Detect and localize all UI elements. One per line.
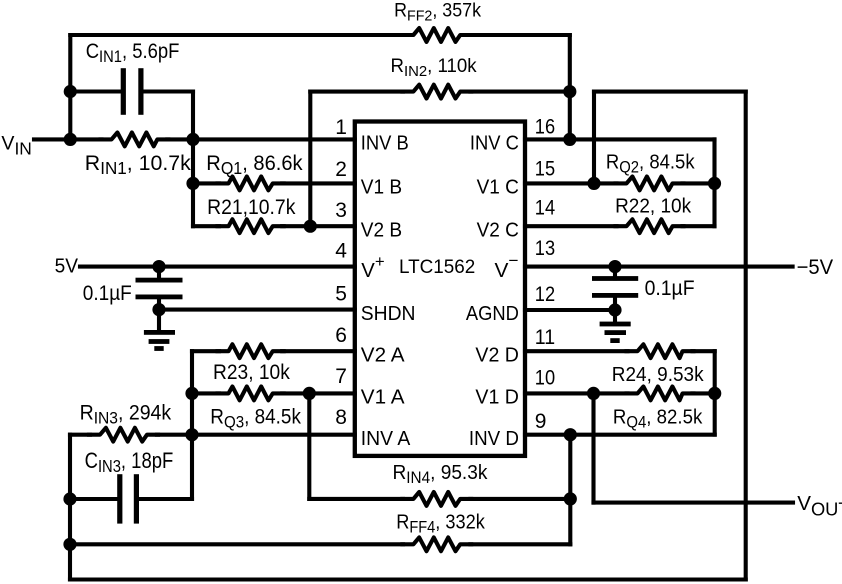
resistor RQ1 <box>218 177 284 191</box>
RIN1 value label <box>85 151 191 178</box>
wire INVA node vertical <box>190 351 194 499</box>
wire RIN4 right <box>470 497 570 501</box>
wire V1D pin 10 <box>525 391 715 395</box>
svg-text:3: 3 <box>335 199 347 222</box>
U1 pin 13 name V- <box>495 251 519 282</box>
svg-text:12: 12 <box>535 283 555 306</box>
svg-text:5V: 5V <box>55 256 79 278</box>
U1 pin 15 name V1 C <box>477 177 519 199</box>
wire INV D pin 9 <box>525 433 715 437</box>
svg-text:4: 4 <box>335 240 347 263</box>
junction RQ4 right <box>708 387 721 400</box>
U1 pin number 12 <box>535 283 555 306</box>
resistor R21 <box>218 219 284 233</box>
svg-text:1: 1 <box>335 116 347 139</box>
wire V2D pin 11 <box>525 349 715 353</box>
wire RIN2 vertical <box>308 92 312 227</box>
svg-text:10: 10 <box>535 366 555 389</box>
wire RQ1 to V1 B pin 2 <box>193 181 355 185</box>
svg-text:LTC1562: LTC1562 <box>399 257 475 278</box>
U1 pin 3 name V2 B <box>361 219 402 241</box>
resistor RIN4 <box>402 492 471 506</box>
VIN label <box>1 133 31 159</box>
svg-text:INV C: INV C <box>470 133 519 155</box>
wire VIN vertical to RFF2/CIN1 <box>68 35 72 139</box>
RQ1 value label <box>206 151 303 178</box>
svg-text:R24, 9.53k: R24, 9.53k <box>612 363 704 386</box>
junction INVB node RQ1 <box>186 177 199 190</box>
U1 pin 5 name SHDN <box>361 303 416 325</box>
U1 pin number 14 <box>535 197 556 220</box>
U1 pin number 7 <box>335 365 347 388</box>
resistor RIN3 <box>89 428 158 442</box>
svg-text:V1 A: V1 A <box>361 387 405 409</box>
wire RFF2 down to INV C <box>568 35 572 139</box>
wire INVC right vertical <box>712 139 716 226</box>
U1 pin 4 name V+ <box>361 252 384 282</box>
junction INVA-RIN3 <box>185 428 198 441</box>
svg-text:0.1µF: 0.1µF <box>83 281 132 305</box>
capacitor bypass right plates <box>592 276 638 298</box>
junction RQ2 right <box>708 177 721 190</box>
svg-text:16: 16 <box>535 116 555 139</box>
wire AGND pin 12 <box>525 308 615 312</box>
wire V- pin 13 to -5V <box>525 265 793 269</box>
svg-text:V1 D: V1 D <box>475 387 519 409</box>
svg-text:V1 B: V1 B <box>361 177 402 199</box>
R22 value label <box>615 195 692 218</box>
-5V label <box>797 256 834 279</box>
RIN2 value label <box>391 56 478 80</box>
wire RIN2 right <box>470 90 569 94</box>
junction VIN-CIN1 <box>64 85 77 98</box>
wire RFF4 left <box>70 542 403 546</box>
svg-text:−5V: −5V <box>797 256 834 279</box>
U1 pin 12 name AGND <box>466 303 519 325</box>
svg-text:13: 13 <box>535 237 555 260</box>
junction RFF4 left <box>63 538 76 551</box>
ground symbol right <box>600 322 631 343</box>
svg-text:AGND: AGND <box>466 303 519 325</box>
junction V1C pin15 <box>587 177 600 190</box>
U1 pin number 3 <box>335 199 347 222</box>
U1 pin 2 name V1 B <box>361 177 402 199</box>
resistor RQ3 <box>218 387 284 401</box>
U1 pin number 11 <box>535 326 555 349</box>
svg-text:INV A: INV A <box>361 428 411 450</box>
svg-text:9: 9 <box>535 410 547 433</box>
U1 part number label LTC1562 <box>399 257 475 278</box>
svg-text:2: 2 <box>335 158 347 181</box>
VOUT label <box>797 492 842 520</box>
R24 value label <box>612 363 704 386</box>
junction CIN3 left <box>63 492 76 505</box>
wire RIN3 left stub <box>70 433 90 437</box>
RQ4 value label <box>613 405 703 431</box>
resistor R23 <box>218 344 284 358</box>
svg-text:0.1µF: 0.1µF <box>645 276 695 300</box>
capacitor CIN3 plates <box>117 474 139 523</box>
R21 value label <box>207 195 296 219</box>
junction INVB node RIN1 <box>186 133 199 146</box>
wire CIN1 down to node INVB <box>191 92 195 227</box>
svg-text:5: 5 <box>335 282 347 305</box>
wire INVD vertical <box>568 435 572 545</box>
junction VIN-RIN1 <box>64 133 77 146</box>
wire bypass right bottom stem <box>613 295 617 324</box>
svg-text:INV D: INV D <box>469 428 519 450</box>
wire RFF2 top left <box>70 33 403 37</box>
wire VOUT vertical <box>591 393 595 502</box>
svg-text:V1 C: V1 C <box>477 177 519 199</box>
wire V1A left <box>192 391 219 395</box>
svg-text:V2 A: V2 A <box>361 344 405 366</box>
U1 pin number 5 <box>335 282 347 305</box>
capacitor CIN1 plates <box>121 68 144 115</box>
wire 5V to V+ pin 4 <box>80 265 355 269</box>
wire RIN3 to INV A pin 8 <box>157 433 355 437</box>
bypass cap left value 0.1uF <box>83 281 132 305</box>
wire RIN4 vertical <box>307 393 311 499</box>
resistor RFF4 <box>402 537 471 551</box>
U1 pin 14 name V2 C <box>477 219 519 241</box>
junction RFF2-RIN2 <box>563 85 576 98</box>
junction AGND bypass <box>608 303 621 316</box>
junction -5V bypass <box>608 260 621 273</box>
wire R24 right vertical <box>713 351 717 434</box>
svg-text:6: 6 <box>335 324 347 347</box>
wire CIN1 left <box>70 89 120 93</box>
wire bypass left bottom stem <box>157 297 161 332</box>
U1 pin number 13 <box>535 237 555 260</box>
U1 pin number 2 <box>335 158 347 181</box>
RQ2 value label <box>606 151 695 177</box>
U1 pin number 1 <box>335 116 347 139</box>
wire RQ3 to V1 A pin 7 <box>282 391 355 395</box>
U1 pin number 4 <box>335 240 347 263</box>
RFF4 value label <box>396 512 485 537</box>
U1 pin number 10 <box>535 366 555 389</box>
U1 pin 8 name INV A <box>361 428 411 450</box>
U1 pin 7 name V1 A <box>361 387 405 409</box>
wire V2C pin 14 <box>525 224 715 228</box>
5V label <box>55 256 79 278</box>
junction INVC pin16 <box>563 133 576 146</box>
svg-text:8: 8 <box>335 406 347 429</box>
wire CIN1 right <box>144 89 194 93</box>
svg-text:INV B: INV B <box>361 133 409 155</box>
wire CIN3 left <box>70 497 117 501</box>
U1 pin number 15 <box>535 158 555 181</box>
CIN3 value label <box>85 448 174 476</box>
node VIN input wire <box>34 137 102 141</box>
wire SHDN pin 5 <box>159 308 355 312</box>
resistor R22 <box>616 219 684 233</box>
bypass cap right value 0.1uF <box>645 276 695 300</box>
wire INV C pin 16 <box>525 137 715 141</box>
svg-text:11: 11 <box>535 326 555 349</box>
wire V1C vertical <box>592 92 596 184</box>
U1 pin 16 name INV C <box>470 133 519 155</box>
wire bypass left top stem <box>157 267 161 280</box>
svg-text:15: 15 <box>535 158 555 181</box>
U1 pin 9 name INV D <box>469 428 519 450</box>
wire RFF2 top right <box>470 33 569 37</box>
U1 pin number 8 <box>335 406 347 429</box>
wire RIN4 left <box>309 497 403 501</box>
svg-text:V2 C: V2 C <box>477 219 519 241</box>
ground symbol left <box>144 330 175 351</box>
junction V1D-VOUT <box>587 387 600 400</box>
U1 pin 1 name INV B <box>361 133 409 155</box>
svg-text:RQ1, 86.6k: RQ1, 86.6k <box>206 151 303 178</box>
junction SHDN bypass <box>152 303 165 316</box>
svg-text:7: 7 <box>335 365 347 388</box>
junction RIN4-RFF4 <box>564 492 577 505</box>
svg-text:14: 14 <box>535 197 556 220</box>
svg-text:V2 D: V2 D <box>475 344 519 366</box>
wire far-right feedback vertical <box>744 92 748 580</box>
resistor RQ4 <box>627 387 694 401</box>
U1 pin number 6 <box>335 324 347 347</box>
wire R23 to V2 A pin 6 <box>282 349 355 353</box>
wire R21 to V2 B pin 3 <box>193 224 355 228</box>
svg-text:R21,10.7k: R21,10.7k <box>207 195 296 219</box>
svg-text:CIN3, 18pF: CIN3, 18pF <box>85 448 174 476</box>
CIN1 value label <box>86 39 180 66</box>
capacitor bypass left plates <box>136 278 183 300</box>
wire V2A left <box>192 349 219 353</box>
RIN4 value label <box>393 462 489 487</box>
junction INVA-RQ3 <box>185 387 198 400</box>
U1 pin 6 name V2 A <box>361 344 405 366</box>
op-amp U1 LTC1562 package outline <box>355 122 525 456</box>
svg-text:RQ3, 84.5k: RQ3, 84.5k <box>210 406 301 432</box>
svg-text:V2 B: V2 B <box>361 219 402 241</box>
svg-text:RIN2, 110k: RIN2, 110k <box>391 56 478 80</box>
wire CIN3 left vertical <box>68 435 72 580</box>
junction 5V bypass <box>152 260 165 273</box>
svg-text:RIN3, 294k: RIN3, 294k <box>80 402 172 428</box>
junction INVD pin9 <box>564 428 577 441</box>
RFF2 value label <box>394 0 481 24</box>
junction V1A-RIN4 <box>303 387 316 400</box>
resistor RIN2 <box>402 85 471 99</box>
RQ3 value label <box>210 406 301 432</box>
resistor RIN1 <box>101 133 169 147</box>
wire VOUT horizontal <box>594 501 794 505</box>
U1 pin 10 name V1 D <box>475 387 519 409</box>
wire bottom feedback <box>70 577 746 581</box>
wire RFF4 right <box>470 542 570 546</box>
U1 pin number 16 <box>535 116 555 139</box>
wire RIN1 to INV B pin 1 <box>167 137 354 141</box>
resistor RFF2 <box>402 28 471 42</box>
junction RIN2-V2B node <box>304 220 317 233</box>
svg-text:SHDN: SHDN <box>361 303 416 325</box>
wire V1C top horizontal <box>594 90 746 94</box>
wire CIN3 right <box>139 497 192 501</box>
U1 pin number 9 <box>535 410 547 433</box>
resistor R24 <box>627 344 694 358</box>
R23 value label <box>213 361 290 384</box>
U1 pin 11 name V2 D <box>475 344 519 366</box>
resistor RQ2 <box>616 177 684 191</box>
svg-text:R22, 10k: R22, 10k <box>615 195 692 218</box>
svg-text:R23, 10k: R23, 10k <box>213 361 290 384</box>
wire RIN2 left <box>310 90 403 94</box>
wire V1C pin 15 <box>525 181 715 185</box>
wire bypass right top stem <box>613 267 617 279</box>
RIN3 value label <box>80 402 172 428</box>
